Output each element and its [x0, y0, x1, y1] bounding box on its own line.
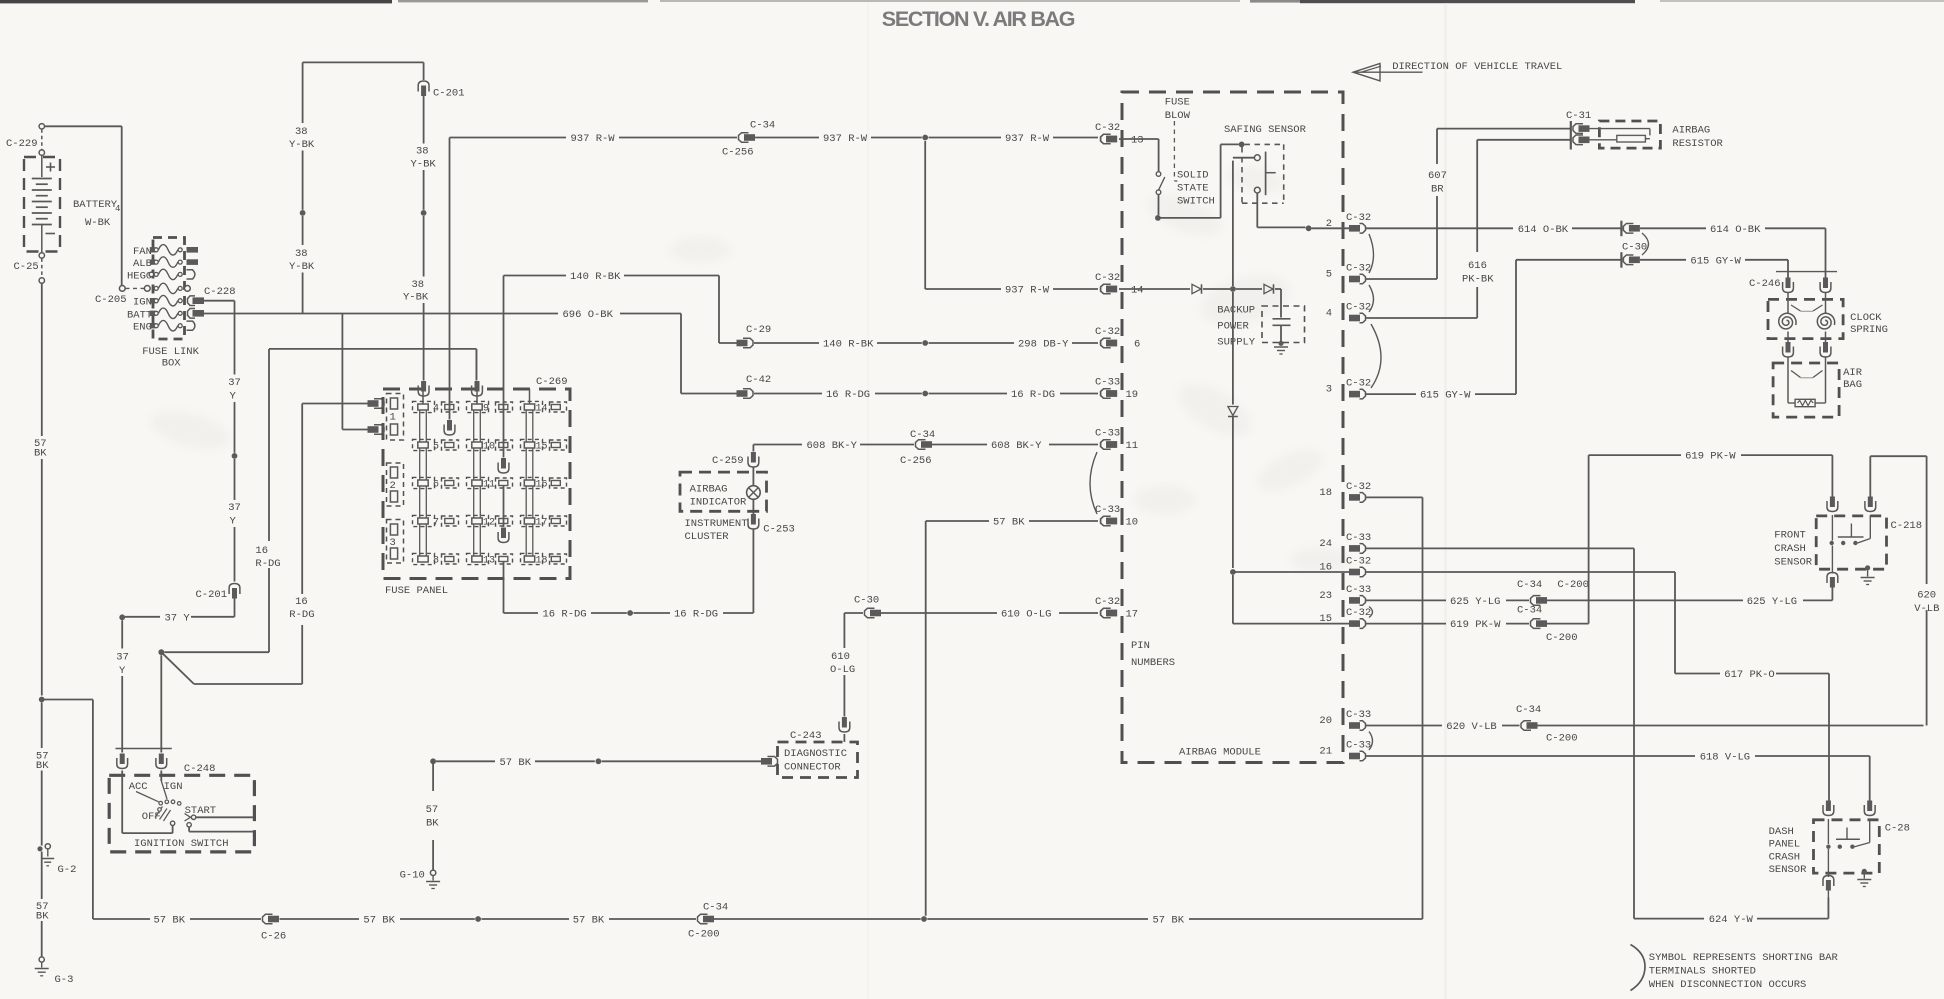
airbag indicator lamp	[752, 499, 754, 514]
svg-text:Y-BK: Y-BK	[403, 292, 429, 304]
wire 937 R-W row	[450, 137, 567, 139]
svg-text:BR: BR	[1431, 184, 1444, 196]
svg-text:10: 10	[483, 442, 495, 453]
diagnostic connector left pin	[768, 757, 778, 767]
module left pin connector	[1101, 134, 1111, 144]
svg-text:CONNECTOR: CONNECTOR	[784, 762, 841, 774]
connector C-34 / C-256 second	[916, 440, 926, 450]
svg-text:SENSOR: SENSOR	[1769, 864, 1808, 876]
connector fuse panel feed fuse 4	[421, 381, 426, 392]
svg-text:3: 3	[390, 537, 396, 549]
svg-text:C-205: C-205	[95, 294, 127, 306]
svg-text:R-DG: R-DG	[255, 558, 280, 570]
svg-text:10: 10	[1126, 517, 1139, 529]
module pin 19 connector C-33	[1101, 389, 1111, 399]
connector C-42	[743, 389, 753, 399]
dash sensor bottom pin	[1823, 876, 1834, 887]
wire 616 PK-BK	[1476, 140, 1478, 252]
wire pin 18 ground	[1366, 496, 1423, 498]
svg-text:17: 17	[536, 518, 548, 529]
wire 140 R-BK row	[504, 275, 567, 277]
splice on 57 BK bus	[475, 916, 481, 922]
connector C-30	[1620, 221, 1622, 237]
fuse 16	[521, 477, 543, 488]
svg-text:IGNITION SWITCH: IGNITION SWITCH	[134, 838, 229, 850]
svg-text:624 Y-W: 624 Y-W	[1709, 914, 1754, 926]
dash sensor switch	[1827, 819, 1829, 844]
svg-text:C-243: C-243	[790, 730, 822, 742]
air bag	[1787, 357, 1789, 401]
fuse panel connector block 3	[387, 520, 404, 564]
svg-text:C-200: C-200	[688, 929, 720, 941]
airbag resistor	[1599, 121, 1660, 148]
svg-text:START: START	[185, 805, 217, 817]
svg-text:615 GY-W: 615 GY-W	[1420, 390, 1471, 402]
fuse 9	[467, 401, 489, 412]
wire 57 BK branch to bottom bus	[42, 699, 93, 701]
module pin 20 connector C-33	[1349, 722, 1360, 729]
svg-text:C-32: C-32	[1095, 596, 1120, 608]
connector pin 1 lower	[374, 425, 384, 435]
svg-text:O-LG: O-LG	[830, 664, 855, 676]
wire 57 BK to pin 10	[926, 520, 989, 522]
module pin 4 connector C-32	[1349, 315, 1360, 322]
wire 937 R-W to pin 14	[924, 141, 926, 289]
svg-text:16: 16	[536, 480, 548, 491]
svg-text:C-32: C-32	[1346, 302, 1371, 314]
svg-text:BATTERY: BATTERY	[73, 199, 118, 211]
svg-text:C-32: C-32	[1095, 122, 1120, 134]
module pin 14 connector C-32	[1101, 284, 1111, 294]
svg-text:C-28: C-28	[1885, 823, 1910, 835]
svg-text:PIN: PIN	[1131, 640, 1150, 652]
front crash sensor top-right pin	[1868, 497, 1873, 508]
svg-text:BLOW: BLOW	[1165, 110, 1191, 122]
svg-text:SPRING: SPRING	[1850, 324, 1888, 336]
svg-text:CRASH: CRASH	[1774, 543, 1806, 555]
svg-text:FUSE: FUSE	[1165, 97, 1190, 109]
svg-text:C-33: C-33	[1095, 377, 1120, 389]
svg-text:WHEN DISCONNECTION OCCURS: WHEN DISCONNECTION OCCURS	[1649, 979, 1807, 991]
connector C-253	[751, 514, 756, 525]
module pin 15 connector C-32	[1349, 620, 1360, 627]
module pin 16 connector C-32	[1349, 569, 1360, 576]
svg-text:CRASH: CRASH	[1769, 852, 1801, 864]
svg-text:BK: BK	[36, 760, 49, 772]
fuse panel connector block 1	[387, 394, 404, 441]
svg-text:C-34: C-34	[1517, 579, 1542, 591]
svg-text:9: 9	[483, 404, 489, 415]
svg-text:696 O-BK: 696 O-BK	[563, 309, 614, 321]
svg-text:57 BK: 57 BK	[500, 757, 532, 769]
fuse 10	[467, 439, 489, 450]
svg-text:615 GY-W: 615 GY-W	[1690, 255, 1741, 267]
scan artifacts (not labelled further)	[0, 0, 392, 3]
svg-text:C-42: C-42	[746, 374, 771, 386]
svg-text:HEGO: HEGO	[127, 270, 152, 282]
wire top link	[303, 61, 424, 63]
bracket pins 23-15	[1369, 607, 1373, 618]
fuse 11	[467, 477, 489, 488]
fusible link BATT	[150, 311, 156, 316]
svg-text:C-256: C-256	[900, 455, 932, 467]
svg-text:SENSOR: SENSOR	[1774, 557, 1813, 569]
svg-text:620 V-LB: 620 V-LB	[1446, 721, 1496, 733]
svg-text:C-34: C-34	[750, 120, 775, 132]
front crash sensor top-left pin	[1830, 497, 1835, 508]
svg-text:C-29: C-29	[746, 324, 771, 336]
svg-text:C-30: C-30	[854, 595, 879, 607]
wire 610 O-LG row	[844, 612, 863, 614]
svg-text:C-33: C-33	[1095, 428, 1120, 440]
wire 57 BK battery negative	[41, 283, 43, 436]
svg-text:SOLID: SOLID	[1177, 170, 1209, 182]
svg-text:19: 19	[1126, 389, 1139, 401]
svg-text:620: 620	[1917, 590, 1936, 602]
connector C-205	[119, 286, 125, 292]
svg-text:937 R-W: 937 R-W	[1005, 133, 1050, 145]
connector above fuse 11	[501, 458, 506, 469]
svg-text:619 PK-W: 619 PK-W	[1685, 451, 1736, 463]
junction at safing sensor	[1239, 142, 1245, 148]
backup power supply diodes	[1119, 288, 1190, 290]
svg-text:ENG: ENG	[133, 322, 152, 334]
fuse 13	[467, 553, 489, 564]
wire 610 O-LG drop to diagnostic connector	[843, 613, 845, 648]
bracket pins 20-21	[1369, 732, 1373, 751]
splice 140 R-BK / 298 DB-Y	[922, 340, 928, 346]
svg-text:C-218: C-218	[1891, 520, 1923, 532]
junction 57 BK with pin 10 drop	[921, 916, 927, 922]
module pin 17 connector C-32	[1101, 608, 1111, 618]
dash panel crash sensor C-28	[1814, 820, 1880, 873]
svg-text:ALB: ALB	[133, 258, 152, 270]
dash sensor top-right pin	[1867, 801, 1872, 812]
svg-text:BK: BK	[34, 448, 47, 460]
svg-text:C-32: C-32	[1346, 378, 1371, 390]
fuse 17	[521, 515, 543, 526]
svg-text:Y: Y	[230, 516, 237, 528]
connector C-229	[39, 124, 44, 129]
fuse 18	[521, 553, 543, 564]
svg-text:625 Y-LG: 625 Y-LG	[1747, 596, 1797, 608]
wire 37 Y to ignition switch	[191, 616, 235, 618]
svg-text:Y: Y	[119, 665, 126, 677]
bracket pins 11-10	[1090, 452, 1097, 514]
wire 625 Y-LG pin 23	[1366, 599, 1447, 601]
svg-text:38: 38	[295, 248, 308, 260]
airbag module box	[1122, 92, 1343, 763]
svg-text:Y-BK: Y-BK	[289, 139, 315, 151]
junction below solid state switch	[1155, 215, 1161, 221]
svg-text:BACKUP: BACKUP	[1217, 305, 1255, 317]
svg-text:37: 37	[228, 502, 241, 514]
fusible link FAN	[150, 247, 156, 252]
ignition switch lower contacts	[170, 821, 174, 825]
front crash sensor bottom pin	[1827, 573, 1838, 584]
connector above fuse 5	[447, 420, 452, 431]
svg-text:15: 15	[536, 442, 548, 453]
connector pin 1 upper	[374, 399, 384, 409]
svg-text:C-34: C-34	[910, 429, 935, 441]
svg-text:C-200: C-200	[1546, 733, 1578, 745]
svg-text:610: 610	[831, 651, 850, 663]
wire safing sensor supply	[1232, 161, 1234, 286]
fuse panel C-269	[383, 389, 570, 579]
svg-text:C-269: C-269	[536, 376, 568, 388]
front crash sensor ground	[1865, 565, 1870, 570]
svg-text:C-246: C-246	[1749, 278, 1781, 290]
svg-text:37: 37	[228, 377, 241, 389]
svg-text:Y-BK: Y-BK	[411, 159, 437, 171]
connector C-29	[743, 338, 753, 348]
connector C-34 / C-256	[739, 133, 749, 143]
svg-text:37: 37	[116, 652, 129, 664]
svg-text:SECTION V. AIR BAG: SECTION V. AIR BAG	[882, 7, 1075, 31]
svg-text:DIAGNOSTIC: DIAGNOSTIC	[784, 748, 847, 760]
svg-text:CLUSTER: CLUSTER	[685, 531, 730, 543]
connector C-246	[1776, 271, 1837, 273]
svg-text:140 R-BK: 140 R-BK	[570, 271, 621, 283]
junction 16 R-DG at ignition switch	[158, 649, 164, 655]
fuse column strip 9-13	[473, 410, 475, 556]
fuse column strip 4-8	[419, 410, 421, 556]
svg-text:12: 12	[483, 518, 495, 529]
svg-text:SUPPLY: SUPPLY	[1217, 337, 1256, 349]
junction 937 R-W	[922, 135, 928, 141]
svg-text:C-33: C-33	[1346, 584, 1371, 596]
svg-text:1: 1	[390, 412, 396, 424]
svg-text:16: 16	[295, 596, 308, 608]
front crash sensor switch	[1831, 515, 1833, 541]
svg-text:C-256: C-256	[722, 147, 754, 159]
svg-text:16: 16	[1319, 562, 1332, 574]
module left pin connector	[1101, 389, 1111, 399]
splice on 16 R-DG	[627, 610, 633, 616]
svg-text:AIRBAG: AIRBAG	[1672, 125, 1710, 137]
ignition switch C-248	[116, 748, 172, 750]
svg-text:C-32: C-32	[1346, 556, 1371, 568]
module pin 11 connector C-33	[1101, 440, 1111, 450]
wire 618 V-LG pin 21	[1366, 755, 1696, 757]
wire 607 BR	[1436, 129, 1438, 164]
svg-text:STATE: STATE	[1177, 183, 1209, 195]
svg-text:618 V-LG: 618 V-LG	[1700, 752, 1750, 764]
module pin 10 connector C-33	[1101, 516, 1111, 526]
svg-text:38: 38	[412, 279, 425, 291]
extra terminal MID row	[185, 286, 191, 292]
wire 619 PK-W pin 15	[1366, 623, 1447, 625]
bracket pins 2-5	[1369, 234, 1374, 273]
svg-text:14: 14	[1131, 285, 1144, 297]
svg-text:57: 57	[426, 804, 439, 816]
connector C-26	[263, 914, 273, 924]
connector C-34 / C-200 (625)	[1531, 596, 1541, 606]
svg-text:C-34: C-34	[1516, 704, 1541, 716]
backup power supply capacitor	[1280, 289, 1282, 318]
module pin 24 connector C-33	[1349, 545, 1360, 552]
svg-text:3: 3	[1326, 384, 1332, 396]
svg-text:2: 2	[390, 480, 396, 492]
dash sensor top-left pin	[1826, 801, 1831, 812]
fuse link box	[153, 238, 185, 340]
svg-text:C-33: C-33	[1346, 740, 1371, 752]
direction of vehicle travel arrow	[1353, 71, 1422, 73]
fusible link MID	[154, 286, 158, 290]
svg-text:16: 16	[255, 545, 268, 557]
svg-text:937 R-W: 937 R-W	[1005, 285, 1050, 297]
svg-text:17: 17	[1126, 609, 1139, 621]
svg-text:5: 5	[433, 442, 439, 453]
svg-text:BATT: BATT	[127, 309, 152, 321]
fuse 7	[413, 515, 435, 526]
svg-text:24: 24	[1319, 538, 1332, 550]
connector C-34 / C-200 bottom	[698, 914, 708, 924]
module pin 2 connector C-32	[1349, 225, 1360, 232]
fuse column strip 14-18	[525, 410, 527, 556]
svg-text:C-25: C-25	[14, 261, 39, 273]
wire safing sensor to pin 2	[1256, 193, 1258, 227]
svg-text:FUSE PANEL: FUSE PANEL	[385, 585, 448, 597]
svg-text:RESISTOR: RESISTOR	[1672, 138, 1723, 150]
svg-text:W-BK: W-BK	[85, 217, 111, 229]
connector C-34 / C-200 (620)	[1521, 721, 1531, 731]
svg-text:18: 18	[1319, 487, 1332, 499]
svg-text:37 Y: 37 Y	[165, 612, 191, 624]
fuse 15	[521, 439, 543, 450]
fuse 4	[413, 401, 435, 412]
wire 615 GY-W to clock spring	[1640, 259, 1686, 261]
svg-text:C-32: C-32	[1346, 212, 1371, 224]
svg-text:IGN: IGN	[133, 297, 152, 309]
svg-text:616: 616	[1468, 260, 1487, 272]
svg-text:617 PK-O: 617 PK-O	[1724, 669, 1774, 681]
shorting bar air bag	[1791, 371, 1801, 378]
svg-text:57 BK: 57 BK	[1153, 915, 1185, 927]
svg-text:16 R-DG: 16 R-DG	[826, 389, 870, 401]
svg-text:BK: BK	[36, 911, 49, 923]
svg-text:C-200: C-200	[1546, 632, 1578, 644]
connector above fuse 13	[503, 486, 505, 527]
svg-text:C-259: C-259	[712, 455, 744, 467]
svg-text:C-34: C-34	[1517, 605, 1542, 617]
wire 57 BK up to module pin 18	[1422, 497, 1424, 919]
svg-text:IGN: IGN	[164, 781, 183, 793]
junction to pin 16	[1230, 569, 1236, 575]
wire to ignition switch IGN pin	[160, 655, 162, 752]
clock spring lower pins	[1786, 342, 1791, 353]
svg-text:20: 20	[1319, 715, 1332, 727]
module left pin connector	[1101, 284, 1111, 294]
fuse 5	[413, 439, 435, 450]
svg-text:V-LB: V-LB	[1914, 603, 1939, 615]
junction on 38 Y-BK	[300, 210, 306, 216]
module pin 3 connector C-32	[1349, 391, 1360, 398]
svg-text:11: 11	[1126, 440, 1139, 452]
ground G-2	[37, 846, 42, 851]
svg-text:16 R-DG: 16 R-DG	[1011, 389, 1055, 401]
svg-text:619 PK-W: 619 PK-W	[1450, 619, 1501, 631]
fuse 14	[521, 401, 543, 412]
svg-text:BAG: BAG	[1843, 379, 1862, 391]
svg-text:FUSE LINK: FUSE LINK	[142, 346, 199, 358]
svg-text:6: 6	[1134, 339, 1140, 351]
svg-text:TERMINALS SHORTED: TERMINALS SHORTED	[1649, 966, 1756, 978]
wire 57 BK to ground G-10	[432, 761, 434, 791]
svg-text:BK: BK	[426, 818, 439, 830]
svg-text:57 BK: 57 BK	[363, 915, 395, 927]
svg-text:SWITCH: SWITCH	[1177, 196, 1215, 208]
svg-text:16 R-DG: 16 R-DG	[543, 609, 587, 621]
svg-text:14: 14	[536, 404, 548, 415]
fuse 6	[413, 477, 435, 488]
svg-text:4: 4	[1326, 308, 1332, 320]
svg-text:R-DG: R-DG	[289, 609, 314, 621]
svg-text:DASH: DASH	[1769, 826, 1794, 838]
svg-text:16 R-DG: 16 R-DG	[674, 609, 718, 621]
svg-text:AIRBAG: AIRBAG	[690, 484, 728, 496]
junction on pin 14 line	[1230, 286, 1236, 292]
module left pin connector	[1101, 338, 1111, 348]
module left pin connector	[1101, 440, 1111, 450]
connector C-201 to ignition switch	[229, 584, 240, 595]
splice 57 BK	[596, 758, 602, 764]
svg-text:140 R-BK: 140 R-BK	[823, 339, 874, 351]
wire 614 O-BK to clock spring	[1640, 227, 1706, 229]
junction 37 Y	[232, 453, 238, 459]
clock spring	[1768, 299, 1843, 338]
svg-text:C-33: C-33	[1346, 532, 1371, 544]
svg-text:57 BK: 57 BK	[573, 915, 605, 927]
svg-text:607: 607	[1428, 170, 1447, 182]
wire 57 BK bottom bus	[93, 918, 150, 920]
svg-text:38: 38	[295, 126, 308, 138]
module pin 6 connector C-32	[1101, 338, 1111, 348]
svg-text:937 R-W: 937 R-W	[823, 133, 868, 145]
svg-text:614 O-BK: 614 O-BK	[1710, 224, 1761, 236]
svg-text:23: 23	[1319, 590, 1332, 602]
wire 608 BK-Y row	[753, 444, 802, 446]
connector C-243 top pin	[842, 717, 847, 728]
ground G-3	[39, 957, 44, 962]
wire 937 R-W from fuse 5	[449, 138, 451, 420]
svg-text:C-32: C-32	[1346, 263, 1371, 275]
wire 38 Y-BK first run	[302, 62, 304, 123]
wire 57 BK into diagnostic connector	[430, 758, 436, 764]
module pin 21 connector C-33	[1349, 753, 1360, 760]
fuse 12	[467, 515, 489, 526]
svg-text:57 BK: 57 BK	[154, 915, 186, 927]
shorting bar clock spring	[1791, 305, 1801, 311]
svg-text:18: 18	[536, 556, 548, 567]
svg-text:ACC: ACC	[129, 781, 148, 793]
svg-text:C-30: C-30	[1622, 242, 1647, 254]
bracket pins 5-4	[1369, 285, 1374, 312]
svg-text:C-26: C-26	[261, 931, 286, 943]
wire 617 PK-O pin 16	[1366, 571, 1676, 573]
svg-text:BOX: BOX	[162, 358, 182, 370]
svg-text:C-248: C-248	[184, 763, 216, 775]
junction at pin 2	[1306, 225, 1312, 231]
svg-text:AIR: AIR	[1843, 367, 1863, 379]
svg-text:PK-BK: PK-BK	[1462, 274, 1494, 286]
wire 620 V-LB pin 20	[1366, 725, 1443, 727]
connector C-259	[751, 452, 756, 463]
solid state switch	[1119, 138, 1159, 140]
fusible link ALB	[150, 259, 156, 264]
svg-text:5: 5	[1326, 269, 1332, 281]
svg-text:C-33: C-33	[1346, 709, 1371, 721]
